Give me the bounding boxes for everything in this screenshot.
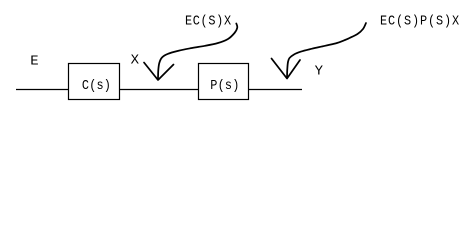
- wire: input E into block C1: [16, 89, 69, 91]
- svg-text:): ): [412, 13, 419, 29]
- svg-text:(: (: [396, 13, 403, 29]
- curved annotation arrow from label EC(S)X to node X: [144, 24, 237, 81]
- block P1: plant P(s): [199, 64, 249, 100]
- block C1: controller C(s): [69, 64, 120, 100]
- svg-text:S: S: [404, 13, 411, 29]
- svg-text:(: (: [89, 77, 96, 93]
- svg-text:(: (: [201, 13, 208, 29]
- svg-text:s: s: [225, 77, 232, 93]
- wire: block P1 output, node Y: [249, 89, 303, 91]
- svg-text:E: E: [380, 13, 387, 29]
- svg-text:C: C: [193, 13, 200, 29]
- svg-text:S: S: [208, 13, 215, 29]
- wire: block C1 output to block P1 input, node X: [119, 89, 199, 91]
- svg-text:E: E: [185, 13, 192, 29]
- svg-text:X: X: [224, 13, 231, 29]
- svg-text:(: (: [428, 13, 435, 29]
- svg-text:P: P: [420, 13, 427, 29]
- svg-text:X: X: [131, 52, 140, 68]
- svg-text:E: E: [30, 53, 38, 69]
- svg-text:): ): [104, 77, 111, 93]
- svg-text:Y: Y: [315, 63, 324, 79]
- annotation label EC(S)P(S)X: [380, 13, 459, 29]
- value label C(s): [82, 77, 111, 93]
- svg-text:C: C: [388, 13, 395, 29]
- svg-text:(: (: [218, 77, 225, 93]
- svg-text:s: s: [96, 77, 103, 93]
- annotation label EC(S)X: [185, 13, 231, 29]
- svg-text:P: P: [210, 77, 217, 93]
- svg-text:): ): [232, 77, 239, 93]
- curved annotation arrow from label EC(S)P(S)X to node Y: [272, 23, 367, 79]
- svg-text:C: C: [82, 77, 89, 93]
- svg-text:): ): [444, 13, 451, 29]
- value label P(s): [210, 77, 239, 93]
- svg-text:): ): [216, 13, 223, 29]
- svg-text:S: S: [436, 13, 443, 29]
- svg-text:X: X: [452, 13, 459, 29]
